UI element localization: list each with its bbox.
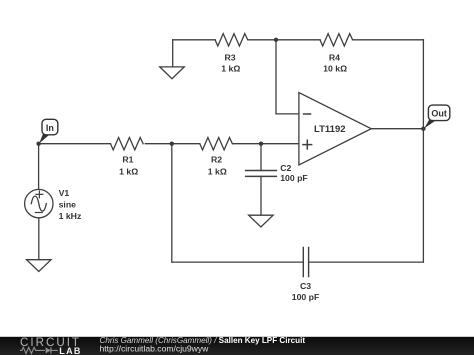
junction node N3 — [259, 142, 263, 146]
logo resistor-diode glyph — [20, 347, 58, 353]
svg-text:R3: R3 — [224, 52, 235, 62]
node flag In — [39, 119, 58, 143]
svg-text:C3: C3 — [300, 281, 311, 291]
junction node N1 — [274, 38, 278, 42]
label R1 value — [119, 154, 138, 176]
label V1 value — [59, 188, 82, 221]
svg-text:1 kΩ: 1 kΩ — [208, 166, 227, 176]
svg-text:LT1192: LT1192 — [314, 124, 346, 135]
svg-text:sine: sine — [59, 199, 77, 209]
svg-text:LAB: LAB — [59, 346, 81, 355]
capacitor C2 — [246, 171, 277, 177]
label R3 value — [221, 52, 240, 73]
resistor R4 — [320, 34, 353, 46]
svg-text:V1: V1 — [59, 188, 70, 198]
wire node N3 down to C2 — [260, 144, 262, 171]
voltage source V1 — [25, 189, 53, 217]
svg-text:C2: C2 — [280, 163, 291, 173]
svg-text:http://circuitlab.com/cju9wyw: http://circuitlab.com/cju9wyw — [100, 343, 210, 353]
svg-text:100 pF: 100 pF — [280, 173, 308, 183]
wire op-amp output — [371, 128, 423, 130]
wire In node down to V1 — [38, 144, 40, 190]
label R4 value — [323, 52, 347, 73]
svg-text:R1: R1 — [122, 154, 133, 164]
wire C3 to right vertical — [309, 261, 424, 263]
node flag Out — [424, 105, 450, 128]
op-amp U1 LT1192 — [299, 93, 371, 165]
wire input rail: In node to R1 — [39, 143, 111, 145]
ground symbol top-left — [160, 67, 185, 79]
ground stem top-left — [172, 40, 174, 67]
junction node Out — [421, 127, 425, 131]
label op-amp LT1192 — [314, 124, 346, 135]
svg-text:1 kΩ: 1 kΩ — [221, 63, 240, 73]
logo CircuitLab wordmark — [20, 336, 82, 355]
wire R4 to top-right corner — [353, 39, 424, 41]
svg-text:10 kΩ: 10 kΩ — [323, 63, 347, 73]
resistor R1 — [111, 138, 144, 150]
capacitor C3 — [303, 248, 308, 277]
wire node N2 down to bottom rail — [171, 144, 173, 262]
svg-text:100 pF: 100 pF — [292, 292, 320, 302]
svg-text:R4: R4 — [329, 52, 340, 62]
resistor R3 — [215, 34, 248, 46]
footer credit text — [100, 336, 306, 353]
junction node In — [36, 142, 40, 146]
ground symbol below V1 — [27, 260, 52, 272]
svg-text:In: In — [46, 123, 54, 133]
wire top-left to R3 — [173, 39, 215, 41]
wire R1 to node N2 — [145, 143, 200, 145]
svg-text:1 kΩ: 1 kΩ — [119, 166, 138, 176]
svg-text:R2: R2 — [211, 154, 222, 164]
wire V1 to ground — [38, 218, 40, 260]
wire R2 to non-inverting input — [233, 143, 299, 145]
ground symbol below C2 — [249, 215, 274, 227]
wire bottom rail left to C3 — [172, 261, 303, 263]
wire R3 to node N1 — [248, 39, 320, 41]
wire C2 to ground — [260, 176, 262, 215]
label C3 value — [292, 281, 320, 302]
wire right vertical — [422, 40, 424, 262]
wire inverting input — [276, 40, 299, 114]
footer bar — [0, 337, 474, 355]
svg-text:Out: Out — [431, 109, 447, 119]
svg-text:1 kHz: 1 kHz — [59, 211, 82, 221]
label R2 value — [208, 154, 227, 176]
junction node N2 — [170, 142, 174, 146]
label C2 value — [280, 163, 308, 183]
resistor R2 — [200, 138, 233, 150]
